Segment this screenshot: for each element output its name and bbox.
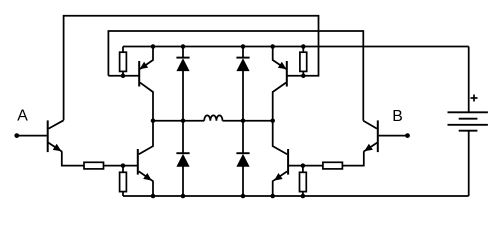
node: rail / D1 cathode: [181, 44, 186, 49]
node: rail / D3 anode: [181, 194, 186, 199]
resistor R4: [300, 172, 307, 191]
node: rail / D4 anode: [241, 194, 246, 199]
wire: second cross-coupling net, QB collector to Q1 base: [108, 31, 363, 121]
wire: left bridge output to inductor: [153, 120, 204, 122]
transistor Q2: [273, 47, 287, 121]
node: rail / D2 cathode: [241, 44, 246, 49]
node: Q3 base junction: [121, 163, 126, 168]
wire: R5 to Q3 base: [104, 165, 138, 167]
node: rail / Q2 emitter: [270, 44, 275, 49]
diode D1: [176, 47, 189, 121]
resistor R2: [300, 52, 307, 71]
wire: rail corner down to R1: [122, 47, 124, 53]
wire: bottom negative rail: [123, 195, 469, 197]
transistor Q1: [139, 47, 153, 121]
wire: R3 bottom to ground rail corner: [122, 192, 124, 196]
node: rail / Q4 emitter: [270, 194, 275, 199]
node: terminal A: [14, 133, 19, 138]
wire: Q2 base wire: [288, 75, 305, 77]
node: Q1 base junction: [121, 74, 126, 79]
resistor R6: [323, 162, 343, 169]
node: D2-D4 midpoint junction: [241, 118, 246, 123]
resistor R3: [120, 172, 127, 191]
node: rail / Q1 emitter: [151, 44, 156, 49]
node: left bridge output junction: [151, 118, 156, 123]
wire: positive supply rail: [123, 46, 469, 48]
node: rail / Q3 emitter: [151, 194, 156, 199]
diode D3: [176, 121, 189, 196]
label B: [392, 108, 403, 125]
wire: R6 to Q4 base: [289, 165, 323, 167]
node: rail / R4 bottom: [301, 194, 306, 199]
node: right bridge output junction: [270, 118, 275, 123]
wire: QB emitter down to R6: [342, 151, 363, 165]
transistor QB: [363, 120, 378, 152]
wire: R4 bottom to ground rail: [302, 192, 304, 196]
node: D1-D3 midpoint junction: [181, 118, 186, 123]
wire: Q1 base wire: [108, 75, 138, 77]
wire: terminal A to QA base: [17, 135, 47, 137]
wire: top cross-coupling net, QA collector to Q2 base: [64, 16, 319, 121]
diode D2: [236, 47, 249, 121]
svg-text:B: B: [392, 108, 403, 125]
diode D4: [236, 121, 249, 196]
wire: junction down to R3: [122, 166, 124, 173]
wire: QA emitter down to R5: [62, 151, 84, 165]
node: Q2 base junction: [301, 74, 306, 79]
battery BT1: [448, 112, 488, 130]
inductor L1: [204, 115, 222, 120]
wire: R2 bottom to Q2 base junction: [302, 71, 304, 75]
label A: [17, 107, 28, 124]
node: Q4 base junction: [301, 163, 306, 168]
wire: rail to R2 top: [302, 47, 304, 53]
resistor R1: [120, 52, 127, 71]
wire: junction down to R4: [302, 166, 304, 173]
wire: R1 bottom to Q1 base junction: [122, 71, 124, 75]
wire: rail to battery positive plate: [468, 47, 470, 113]
transistor QA: [48, 120, 64, 152]
transistor Q4: [273, 121, 288, 196]
node: terminal B: [405, 133, 410, 138]
node: rail / R2 top: [301, 44, 306, 49]
wire: battery negative plate to bottom rail: [468, 131, 470, 196]
wire: inductor to right bridge output: [223, 120, 273, 122]
transistor Q3: [138, 121, 153, 196]
wire: terminal B to QB base: [379, 135, 408, 137]
resistor R5: [84, 162, 104, 169]
label battery plus sign: [471, 95, 478, 102]
svg-text:A: A: [17, 107, 28, 124]
